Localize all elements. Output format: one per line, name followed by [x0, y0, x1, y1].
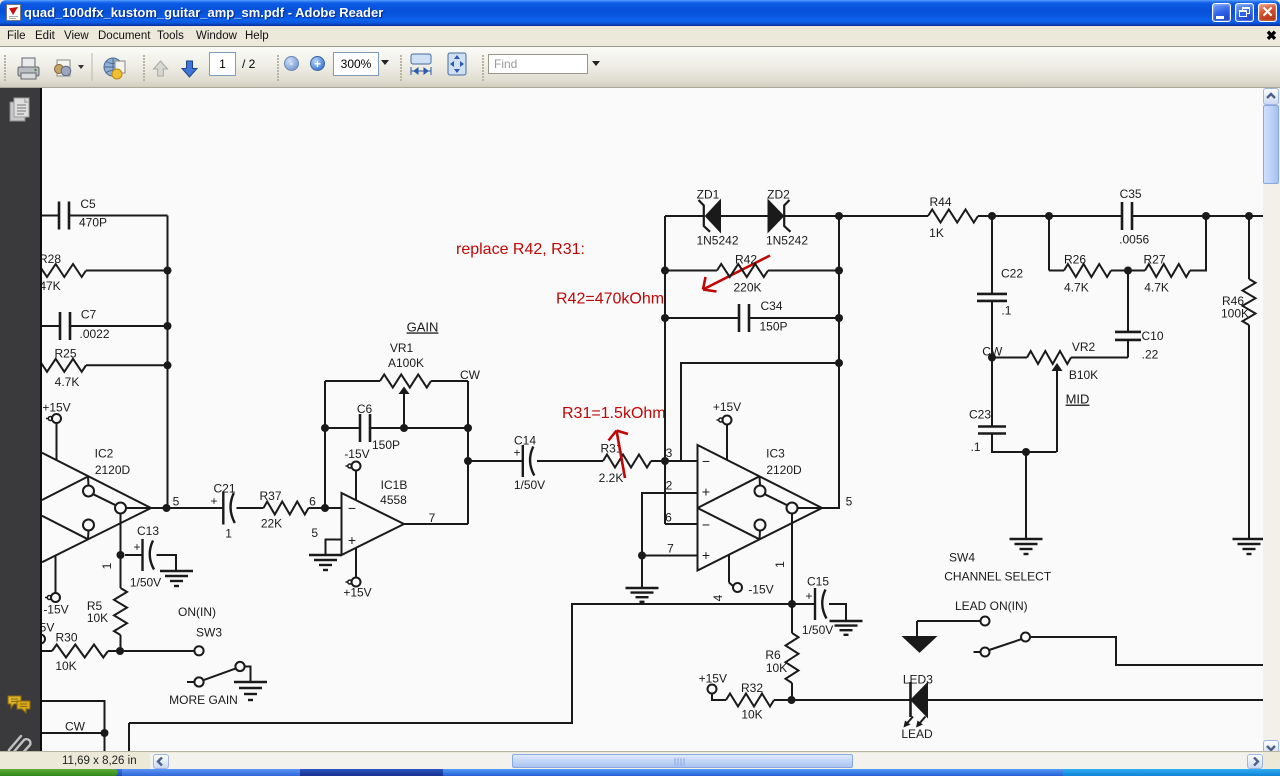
svg-text:MID: MID: [1066, 392, 1090, 407]
svg-text:7: 7: [429, 511, 436, 525]
ground C13: [160, 571, 193, 586]
svg-text:R44: R44: [929, 195, 951, 209]
wire: [108, 650, 194, 652]
junction: [163, 504, 171, 512]
wire gain loop right: [467, 381, 469, 524]
wire: [1048, 216, 1050, 271]
wire: [38, 325, 60, 327]
-15V supply IC1B: [344, 447, 369, 500]
resistor R37: [259, 489, 308, 531]
resistor R32: [726, 681, 774, 722]
svg-text:C5: C5: [80, 197, 96, 211]
junction: [835, 267, 843, 275]
svg-text:GAIN: GAIN: [407, 319, 439, 334]
junction: [1202, 212, 1210, 220]
wire: [325, 380, 380, 382]
svg-text:SW4: SW4: [949, 551, 975, 565]
svg-text:10K: 10K: [741, 708, 762, 722]
svg-text:R37: R37: [259, 489, 281, 503]
capacitor C22: [977, 267, 1023, 318]
svg-text:4.7K: 4.7K: [1144, 281, 1169, 295]
capacitor C5: [59, 197, 107, 230]
wire: [1127, 340, 1129, 358]
wire: [38, 215, 59, 217]
svg-text:+: +: [702, 484, 710, 500]
svg-text:A100K: A100K: [388, 356, 424, 370]
wire IC1B pin 6: [309, 495, 342, 509]
capacitor C23: [969, 408, 1006, 454]
zener diode ZD2 1N5242: [766, 188, 808, 248]
junction: [321, 504, 329, 512]
resistor R28: [34, 252, 86, 293]
svg-text:150P: 150P: [372, 438, 400, 452]
capacitor C7: [60, 307, 110, 341]
wire: [665, 215, 704, 217]
wire: [86, 364, 168, 366]
capacitor C6: [357, 402, 400, 452]
svg-text:−: −: [702, 517, 710, 533]
svg-text:LED3: LED3: [903, 673, 933, 687]
svg-text:R42: R42: [735, 252, 757, 266]
wire IC3 pin1 to C15: [791, 514, 793, 605]
+15V supply R32: [699, 671, 727, 700]
ground R46: [1233, 539, 1266, 554]
switch SW4: [904, 617, 1030, 657]
wire: [829, 604, 846, 621]
svg-text:2120D: 2120D: [95, 463, 131, 477]
ground C15: [830, 621, 863, 635]
svg-text:4.7K: 4.7K: [1064, 281, 1089, 295]
junction: [638, 552, 646, 560]
svg-text:R32: R32: [741, 681, 763, 695]
svg-text:C10: C10: [1141, 329, 1163, 343]
wire bottom bus: [129, 604, 792, 723]
svg-text:VR1: VR1: [390, 341, 414, 355]
resistor R42: [717, 252, 768, 294]
svg-text:1: 1: [100, 562, 114, 569]
wire IC1B pin 5: [311, 526, 341, 555]
svg-text:C34: C34: [760, 299, 782, 313]
svg-text:ZD2: ZD2: [767, 188, 790, 202]
window title bar: [0, 0, 1280, 26]
svg-text:1: 1: [773, 561, 787, 568]
junction: [1245, 212, 1253, 220]
svg-text:+15V: +15V: [699, 671, 727, 685]
wire: [1030, 637, 1263, 665]
wire: [991, 301, 993, 358]
potentiometer VR1 A100K (GAIN): [380, 319, 481, 428]
wire: [128, 723, 130, 752]
wire feedback box top: [681, 363, 839, 461]
wire: [992, 434, 1057, 453]
annotation arrow to R42: [703, 256, 770, 292]
svg-text:C6: C6: [357, 402, 373, 416]
op-amp IC1B (4558): [342, 478, 436, 555]
wire: [791, 604, 793, 633]
wire IC3 output pin 5: [822, 494, 853, 508]
resistor R26: [1049, 252, 1111, 294]
resistor R5: [87, 555, 127, 651]
resistor R6: [765, 633, 798, 683]
svg-text:MORE GAIN: MORE GAIN: [169, 693, 238, 707]
wire: [1127, 271, 1129, 333]
svg-text:1/50V: 1/50V: [514, 478, 545, 492]
svg-text:2: 2: [666, 479, 673, 493]
svg-text:5: 5: [311, 526, 318, 540]
wire: [720, 215, 769, 217]
resistor R27: [1143, 252, 1190, 294]
svg-text:22K: 22K: [261, 517, 282, 531]
svg-text:1/50V: 1/50V: [802, 623, 833, 637]
junction: [117, 551, 125, 559]
wire: [38, 732, 105, 734]
op-amp IC2 (2120D dual): [42, 446, 151, 562]
wire: [927, 699, 1263, 701]
svg-text:IC3: IC3: [766, 446, 785, 460]
junction: [988, 212, 996, 220]
svg-text:220K: 220K: [733, 280, 761, 294]
ground C23: [1010, 539, 1043, 554]
capacitor C34: [739, 299, 788, 334]
svg-text:47K: 47K: [42, 279, 61, 293]
capacitor C21: [210, 481, 235, 540]
+15V supply IC2: [42, 400, 70, 460]
wire: [1025, 452, 1027, 539]
svg-text:SW3: SW3: [196, 626, 222, 640]
wire: [641, 556, 643, 589]
wire: [157, 555, 177, 571]
junction: [1022, 448, 1030, 456]
svg-text:R31=1.5kOhm: R31=1.5kOhm: [562, 405, 666, 422]
resistor R25: [34, 346, 86, 389]
wire feedback bus right: [838, 216, 840, 508]
wire: [1111, 270, 1145, 272]
wire: [665, 317, 739, 319]
svg-text:ON(IN): ON(IN): [178, 605, 216, 619]
svg-text:+: +: [702, 547, 710, 563]
junction: [1124, 267, 1132, 275]
svg-text:R6: R6: [765, 648, 781, 662]
toolbar: [0, 47, 1280, 88]
svg-text:5: 5: [846, 494, 853, 508]
svg-text:2120D: 2120D: [766, 463, 802, 477]
svg-text:+15V: +15V: [42, 400, 70, 414]
wire feedback bus IC2: [167, 216, 169, 509]
ground IC1B pin5: [309, 555, 342, 570]
wire: [1132, 215, 1263, 217]
wire: [768, 270, 839, 272]
svg-text:C13: C13: [137, 524, 159, 538]
svg-text:100K: 100K: [1221, 307, 1249, 321]
svg-text:LEAD: LEAD: [901, 727, 933, 741]
wire: [785, 215, 928, 217]
wire IC3 pin 6: [665, 511, 698, 525]
svg-text:1N5242: 1N5242: [696, 233, 738, 247]
junction: [988, 354, 996, 362]
vertical scrollbar: [1263, 88, 1280, 751]
+15V supply IC1B: [343, 548, 371, 600]
wire: [774, 699, 911, 701]
svg-text:10K: 10K: [87, 611, 108, 625]
capacitor C10: [1115, 329, 1164, 361]
svg-text:−: −: [702, 453, 710, 469]
wire IC2 pin1: [100, 514, 121, 570]
-15V supply IC3: [711, 554, 774, 601]
svg-text:ZD1: ZD1: [697, 188, 720, 202]
junction: [164, 361, 172, 369]
svg-text:+: +: [133, 540, 140, 554]
svg-text:2.2K: 2.2K: [599, 471, 624, 485]
svg-text:C22: C22: [1001, 267, 1023, 281]
svg-text:10K: 10K: [55, 659, 76, 673]
svg-text:LEAD ON(IN): LEAD ON(IN): [955, 599, 1028, 613]
svg-text:+: +: [348, 532, 356, 548]
wire: [665, 270, 717, 272]
wire: [978, 215, 1122, 217]
svg-text:5: 5: [173, 494, 180, 508]
wire: [1190, 216, 1206, 271]
svg-text:CHANNEL SELECT: CHANNEL SELECT: [944, 570, 1052, 584]
svg-text:VR2: VR2: [1072, 340, 1096, 354]
junction: [661, 267, 669, 275]
wire: [69, 215, 168, 217]
junction: [1045, 212, 1053, 220]
wire: [468, 460, 523, 462]
svg-text:.1: .1: [971, 440, 981, 454]
sidebar pages icon: [8, 96, 38, 128]
wire IC3 pin 3: [665, 446, 698, 461]
svg-text:+15V: +15V: [713, 400, 741, 414]
junction: [321, 424, 329, 432]
ground IC3 inputs: [626, 588, 659, 602]
wire: [431, 380, 468, 382]
capacitor C14: [513, 433, 545, 492]
svg-text:1: 1: [225, 526, 232, 540]
svg-text:4558: 4558: [380, 493, 407, 507]
svg-text:−: −: [348, 500, 356, 516]
junction: [835, 359, 843, 367]
potentiometer VR2 B10K (MID): [992, 340, 1128, 452]
svg-text:.0022: .0022: [79, 327, 109, 341]
status bar: [0, 751, 1280, 769]
wire: [991, 358, 993, 427]
svg-text:+15V: +15V: [343, 586, 371, 600]
junction: [116, 647, 124, 655]
junction: [788, 696, 796, 704]
wire gain loop left: [324, 381, 326, 508]
svg-text:replace R42, R31:: replace R42, R31:: [456, 241, 585, 258]
resistor R31: [599, 441, 651, 485]
wire: [651, 460, 665, 462]
junction: [835, 212, 843, 220]
svg-text:-15V: -15V: [748, 582, 773, 596]
capacitor C35: [1119, 187, 1149, 246]
svg-text:C23: C23: [969, 408, 991, 422]
wire: [237, 507, 264, 509]
wire IC3 pin 2: [642, 479, 698, 556]
svg-text:.22: .22: [1142, 347, 1159, 361]
svg-text:4: 4: [711, 594, 725, 601]
switch SW3 (MORE GAIN): [169, 605, 244, 707]
svg-text:C35: C35: [1120, 187, 1142, 201]
resistor R46: [1221, 216, 1256, 325]
svg-text:7: 7: [667, 542, 674, 556]
svg-text:5V: 5V: [42, 621, 54, 635]
svg-text:IC2: IC2: [95, 446, 114, 460]
svg-text:R42=470kOhm: R42=470kOhm: [556, 290, 664, 307]
junction: [788, 600, 796, 608]
wire: [245, 667, 251, 683]
svg-text:R27: R27: [1143, 252, 1165, 266]
svg-text:1N5242: 1N5242: [766, 233, 808, 247]
svg-text:C7: C7: [81, 307, 97, 321]
svg-text:R28: R28: [42, 252, 61, 266]
zener diode ZD1 1N5242: [696, 188, 738, 248]
svg-text:CW: CW: [65, 720, 86, 734]
svg-text:6: 6: [665, 511, 672, 525]
wire IC3 pin 7: [642, 542, 698, 556]
wire CW box: [38, 701, 105, 752]
junction: [661, 457, 669, 465]
junction: [164, 267, 172, 275]
svg-text:1/50V: 1/50V: [130, 575, 161, 589]
svg-text:-15V: -15V: [344, 447, 369, 461]
svg-text:10K: 10K: [766, 661, 787, 675]
wire: [991, 216, 993, 294]
svg-text:B10K: B10K: [1069, 368, 1098, 382]
svg-text:470P: 470P: [79, 216, 107, 230]
svg-text:.1: .1: [1001, 304, 1011, 318]
+15V supply IC3: [713, 400, 741, 460]
junction: [101, 729, 109, 737]
svg-text:+: +: [805, 589, 812, 603]
svg-text:C15: C15: [807, 575, 829, 589]
svg-text:4.7K: 4.7K: [55, 375, 80, 389]
svg-text:6: 6: [309, 495, 316, 509]
LED LED3: [901, 673, 933, 741]
junction: [835, 314, 843, 322]
resistor R30: [38, 631, 108, 673]
capacitor C15: [792, 575, 833, 637]
-15V supply IC2: [43, 556, 68, 617]
taskbar: [0, 769, 1280, 776]
wire IC2 output pin 5: [151, 494, 223, 508]
wire: [1248, 325, 1250, 539]
junction: [661, 314, 669, 322]
svg-text:-15V: -15V: [43, 602, 68, 616]
wire: [70, 325, 168, 327]
wire feedback bus left: [664, 216, 666, 524]
svg-text:R26: R26: [1064, 252, 1086, 266]
svg-text:+: +: [513, 446, 520, 460]
annotation arrow to R31: [609, 431, 629, 479]
junction: [464, 457, 472, 465]
svg-text:+: +: [210, 494, 217, 508]
svg-text:IC1B: IC1B: [381, 478, 408, 492]
wire: [537, 460, 603, 462]
wire: [86, 270, 168, 272]
wire: [325, 427, 360, 429]
resistor R44: [928, 195, 978, 240]
svg-text:.0056: .0056: [1119, 232, 1149, 246]
node 5V (clipped): [36, 621, 54, 644]
ground SW3: [234, 682, 267, 700]
wire: [749, 317, 839, 319]
svg-text:R25: R25: [54, 346, 76, 360]
wire IC1B output: [404, 523, 468, 525]
sidebar comments icon: [6, 692, 36, 722]
op-amp IC3 (2120D dual): [698, 445, 823, 571]
svg-text:R30: R30: [55, 631, 77, 645]
svg-text:1K: 1K: [929, 226, 944, 240]
junction: [164, 322, 172, 330]
sidebar attachments icon: [6, 732, 36, 762]
junction: [400, 424, 408, 432]
wire: [791, 683, 793, 700]
switch SW4 labels: [944, 551, 1052, 584]
junction: [464, 424, 472, 432]
capacitor C13: [125, 524, 161, 589]
svg-text:150P: 150P: [759, 319, 787, 333]
wire: [370, 427, 468, 429]
menu bar: [0, 26, 1280, 47]
